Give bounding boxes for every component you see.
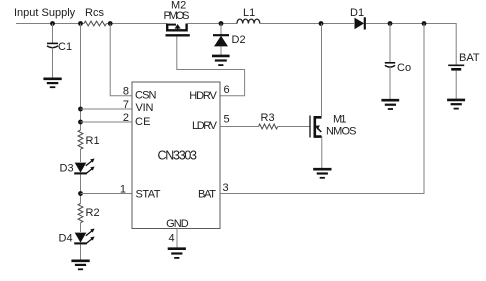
capacitor C1 [47,24,72,79]
resistor Rcs [84,7,106,26]
wire BAT pin 3 [220,24,424,194]
junction D2 L1 [219,21,224,26]
wire LDRV pin 5 to R3 [220,126,259,128]
pin 7 label [123,99,129,111]
junction VIN [78,107,83,112]
diode D2 [213,24,246,56]
ground C1 [43,79,61,87]
svg-text:VIN: VIN [136,102,154,114]
wire D3 to STAT node [80,174,82,203]
svg-text:GND: GND [166,218,189,230]
svg-text:Rcs: Rcs [85,7,104,19]
inductor L1 [237,7,260,24]
junction M1 drain [319,21,324,26]
svg-text:1: 1 [120,183,126,195]
wire Rcs to M2 [106,23,167,25]
svg-text:4: 4 [169,233,175,245]
transistor M2 PMOS [164,0,190,35]
svg-text:D2: D2 [232,34,246,46]
wire STAT pin 1 [81,193,133,195]
svg-text:R1: R1 [86,135,100,147]
pin 8 label [123,86,129,98]
wire R3 to M1 gate [278,126,310,128]
svg-text:LDRV: LDRV [192,120,218,132]
svg-text:HDRV: HDRV [189,90,217,102]
junction Rcs right [108,21,113,26]
wire M2 to D2/L1 node [187,23,237,25]
ground Co [381,100,399,109]
ground D4 [71,261,89,270]
junction C1 [50,21,55,26]
ground D2 [212,56,230,65]
capacitor Co [385,24,411,100]
wire D1 to battery [366,24,456,65]
svg-text:7: 7 [123,99,129,111]
ground GND pin [168,249,186,258]
junction CE [78,120,83,125]
svg-text:D1: D1 [350,7,364,19]
op-amp U1 CN3303 box [132,82,220,230]
wire D4 to ground [80,244,82,260]
svg-text:R2: R2 [86,207,100,219]
pin 1 label [120,183,126,195]
pin 3 label [223,182,229,194]
svg-text:CN3303: CN3303 [158,149,198,163]
resistor R2 [78,204,99,223]
resistor R3 [259,112,278,129]
svg-text:CE: CE [135,116,151,128]
svg-text:PMOS: PMOS [164,10,190,22]
svg-text:L1: L1 [243,7,255,19]
junction STAT [78,191,83,196]
svg-text:5: 5 [224,114,230,126]
LED D4 [59,229,95,245]
wire CE pin 2 [81,121,133,123]
wire VIN/CE vertical from input node [80,24,82,131]
battery BAT [448,52,480,99]
wire CSN pin 8 [110,24,132,96]
svg-text:C1: C1 [58,41,72,53]
svg-text:CSN: CSN [135,89,157,101]
wire VIN pin 7 [81,108,133,110]
svg-text:NMOS: NMOS [326,126,357,138]
pin 5 label [224,114,230,126]
pin 4 label [169,233,175,245]
LED D3 [60,159,95,175]
svg-text:BAT: BAT [459,52,480,64]
svg-text:Input Supply: Input Supply [14,7,76,19]
svg-text:2: 2 [123,112,129,124]
junction BAT pin [422,21,427,26]
pin 2 label [123,112,129,124]
junction Rcs left [78,21,83,26]
resistor R1 [78,130,99,149]
junction Co [388,21,393,26]
wire top rail left: input to Rcs [16,23,84,25]
node Input Supply label [14,7,76,19]
svg-text:BAT: BAT [198,189,216,201]
svg-text:D4: D4 [59,233,73,245]
wire R1 to D3 [80,149,82,162]
svg-text:8: 8 [123,86,129,98]
svg-text:3: 3 [223,182,229,194]
svg-text:Co: Co [397,62,411,74]
svg-text:R3: R3 [261,112,275,124]
transistor M1 NMOS [310,24,357,169]
svg-text:STAT: STAT [136,189,161,201]
wire L1 to M1 drain node [260,23,354,25]
wire R2 to D4 [80,223,82,233]
ground M1 [313,169,331,178]
svg-text:6: 6 [224,84,230,96]
ground battery [447,100,465,109]
wire M2 gate to HDRV pin 6 [177,37,245,96]
pin 6 label [224,84,230,96]
svg-text:M1: M1 [333,114,347,126]
svg-text:D3: D3 [60,163,74,175]
wire GND pin 4 [176,229,178,249]
diode D1 [350,7,365,30]
